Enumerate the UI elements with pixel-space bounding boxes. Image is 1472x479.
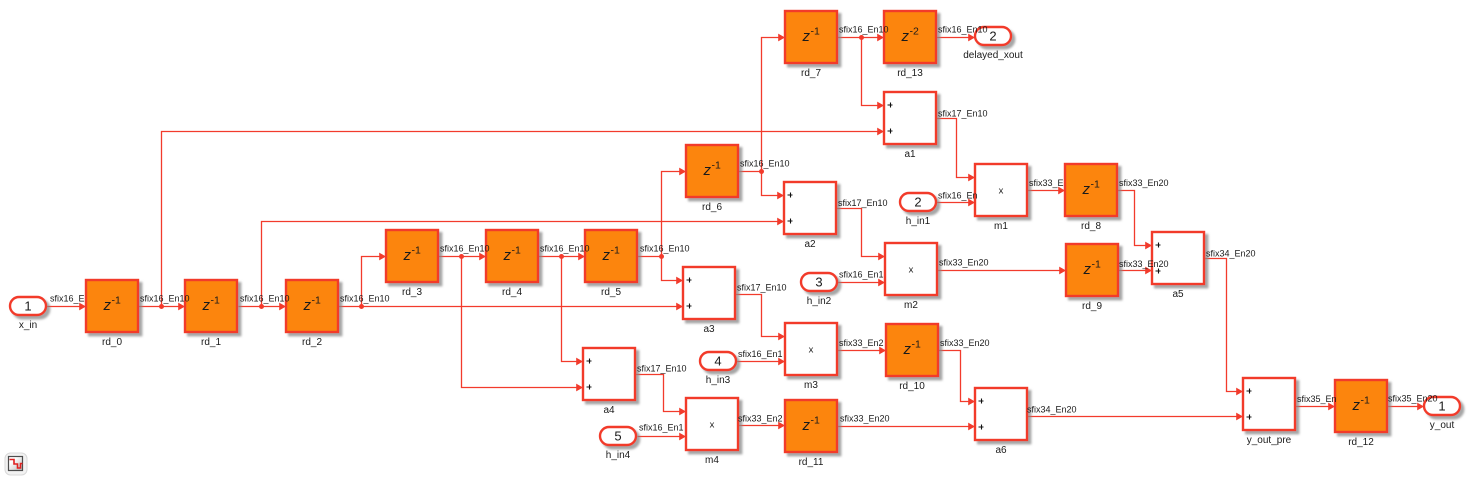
sum block a4 <box>583 348 635 416</box>
wire rd_7 to rd_13 <box>838 37 879 39</box>
port h_in1 (2) <box>900 193 936 227</box>
port delayed_xout (2) <box>963 27 1023 61</box>
svg-text:-2: -2 <box>910 26 919 38</box>
svg-text:rd_13: rd_13 <box>897 68 923 79</box>
product block m4 <box>686 398 738 466</box>
delay block rd_11 (z^-1) <box>785 400 837 468</box>
svg-text:y_out: y_out <box>1430 420 1455 431</box>
product block m3 <box>785 323 837 391</box>
wire branch rd_4 to a4 in1 <box>562 257 578 362</box>
svg-text:z: z <box>1352 397 1361 414</box>
svg-text:sfix16_En10: sfix16_En10 <box>839 25 889 35</box>
svg-text:rd_6: rd_6 <box>702 202 722 213</box>
svg-text:z: z <box>802 417 811 434</box>
port h_in3 (4) <box>700 352 736 386</box>
svg-text:-1: -1 <box>1091 179 1100 191</box>
delay block rd_3 (z^-1) <box>386 230 438 298</box>
product block m2 <box>885 243 937 311</box>
svg-text:y_out_pre: y_out_pre <box>1247 435 1292 446</box>
wire rd_5 to junction <box>638 256 662 258</box>
wire junction at 761,171 <box>759 169 764 174</box>
svg-text:sfix33_E: sfix33_E <box>1029 178 1064 188</box>
wire a3 to m3 in1 <box>736 295 780 337</box>
svg-text:x: x <box>809 345 814 356</box>
svg-text:z: z <box>903 341 912 358</box>
svg-text:sfix33_En20: sfix33_En20 <box>1119 178 1169 188</box>
svg-text:h_in1: h_in1 <box>906 216 931 227</box>
svg-text:sfix33_En2: sfix33_En2 <box>738 414 783 424</box>
wire h_in1 to m1 in2 <box>937 202 970 204</box>
svg-text:rd_11: rd_11 <box>799 457 824 468</box>
port h_in2 (3) <box>801 273 837 307</box>
svg-text:rd_1: rd_1 <box>201 337 221 348</box>
wire y_out_pre to rd_12 <box>1296 406 1330 408</box>
delay block rd_1 (z^-1) <box>185 280 237 348</box>
svg-text:z: z <box>802 28 811 45</box>
wire junction at 161,306 <box>159 304 164 309</box>
svg-text:sfix17_En10: sfix17_En10 <box>838 198 888 208</box>
svg-text:x_in: x_in <box>19 320 37 331</box>
svg-text:x: x <box>710 420 715 431</box>
delay block rd_9 (z^-1) <box>1066 244 1118 312</box>
svg-text:z: z <box>1083 261 1092 278</box>
svg-text:z: z <box>403 247 412 264</box>
svg-text:sfix16_En10: sfix16_En10 <box>240 294 290 304</box>
wire rd_6 to junction <box>739 171 762 173</box>
sum block a1 <box>884 92 936 160</box>
svg-text:sfix34_En20: sfix34_En20 <box>1206 249 1256 259</box>
svg-text:-1: -1 <box>811 26 820 38</box>
svg-text:-1: -1 <box>512 245 521 257</box>
svg-text:sfix16_En10: sfix16_En10 <box>640 244 690 254</box>
svg-text:sfix34_En20: sfix34_En20 <box>1027 405 1077 415</box>
svg-text:rd_4: rd_4 <box>502 287 522 298</box>
svg-text:-1: -1 <box>112 295 121 307</box>
wire junction down to a2 in1 <box>762 172 779 196</box>
svg-text:z: z <box>303 297 312 314</box>
svg-text:sfix16_En10: sfix16_En10 <box>340 294 390 304</box>
port x_in (1) <box>10 297 46 331</box>
svg-text:z: z <box>703 162 712 179</box>
svg-text:-1: -1 <box>412 245 421 257</box>
svg-text:rd_9: rd_9 <box>1082 301 1102 312</box>
wire m1 to rd_8 <box>1028 190 1060 192</box>
svg-text:rd_3: rd_3 <box>402 287 422 298</box>
svg-text:rd_10: rd_10 <box>899 381 925 392</box>
svg-text:sfix17_En10: sfix17_En10 <box>637 364 687 374</box>
wire rd_1 to rd_2 <box>239 306 281 308</box>
delay block rd_12 (z^-1) <box>1335 380 1387 448</box>
wire rd_9 to a5 in2 <box>1119 270 1147 272</box>
wire branch rd_1 to a2 in2 <box>262 222 779 307</box>
svg-text:3: 3 <box>815 275 822 290</box>
wire junction up to rd_7 <box>762 38 780 172</box>
sum block y_out_pre <box>1243 378 1295 446</box>
sum block a6 <box>975 388 1027 456</box>
sample time legend badge <box>5 453 27 475</box>
svg-text:-1: -1 <box>1361 395 1370 407</box>
svg-text:z: z <box>503 247 512 264</box>
svg-text:2: 2 <box>914 195 921 210</box>
svg-text:sfix16_En10: sfix16_En10 <box>140 294 190 304</box>
product block m1 <box>975 164 1027 232</box>
svg-text:z: z <box>202 297 211 314</box>
svg-text:z: z <box>103 297 112 314</box>
svg-text:sfix33_En20: sfix33_En20 <box>840 414 890 424</box>
svg-text:m2: m2 <box>904 300 918 311</box>
wire junction up to rd_3 <box>362 257 381 307</box>
wire junction at 361,306 <box>359 304 364 309</box>
svg-text:m3: m3 <box>804 380 818 391</box>
wire rd_4 to rd_5 <box>539 256 580 258</box>
sum block a2 <box>784 182 836 250</box>
svg-text:a2: a2 <box>804 239 816 250</box>
svg-text:-1: -1 <box>811 415 820 427</box>
wire m2 to rd_9 <box>938 270 1061 272</box>
svg-text:-1: -1 <box>912 339 921 351</box>
wire m3 to rd_10 <box>838 350 881 352</box>
wire junction at 861,37 <box>859 35 864 40</box>
wire rd_12 to y_out <box>1388 406 1419 408</box>
wire branch rd_0 to a1 in2 <box>162 132 879 307</box>
delay block rd_5 (z^-1) <box>585 230 637 298</box>
delay block rd_0 (z^-1) <box>86 280 138 348</box>
wire rd_3 to rd_4 <box>439 256 481 258</box>
svg-text:rd_7: rd_7 <box>801 68 821 79</box>
svg-text:-1: -1 <box>211 295 220 307</box>
svg-text:a6: a6 <box>995 445 1007 456</box>
delay block rd_6 (z^-1) <box>686 145 738 213</box>
svg-text:z: z <box>901 28 910 45</box>
svg-text:sfix16_En: sfix16_En <box>938 191 978 201</box>
svg-text:a4: a4 <box>603 405 615 416</box>
svg-text:z: z <box>602 247 611 264</box>
svg-text:sfix16_En1: sfix16_En1 <box>839 270 884 280</box>
svg-text:sfix16_E: sfix16_E <box>50 294 85 304</box>
delay block rd_2 (z^-1) <box>286 280 338 348</box>
svg-text:sfix16_En1: sfix16_En1 <box>738 349 783 359</box>
delay block rd_4 (z^-1) <box>486 230 538 298</box>
port h_in4 (5) <box>600 427 636 461</box>
wire junction down to a3 in1 <box>662 257 678 281</box>
svg-text:delayed_xout: delayed_xout <box>963 50 1023 61</box>
svg-text:sfix16_En10: sfix16_En10 <box>440 244 490 254</box>
svg-text:h_in4: h_in4 <box>606 450 631 461</box>
svg-text:-1: -1 <box>312 295 321 307</box>
svg-text:sfix16_En10: sfix16_En10 <box>540 244 590 254</box>
wire a6 to y_out_pre in2 <box>1028 416 1238 418</box>
wire junction at 461,256 <box>459 254 464 259</box>
delay block rd_8 (z^-1) <box>1065 164 1117 232</box>
delay block rd_10 (z^-1) <box>886 324 938 392</box>
svg-text:a1: a1 <box>904 149 916 160</box>
wire rd_11 to a6 in2 <box>838 426 970 428</box>
svg-text:sfix33_En20: sfix33_En20 <box>939 258 989 268</box>
wire h_in3 to m3 in2 <box>737 361 780 363</box>
sum block a5 <box>1152 232 1204 300</box>
svg-text:sfix35_En: sfix35_En <box>1297 394 1337 404</box>
wire junction at 661,256 <box>659 254 664 259</box>
wire x_in to rd_0 <box>47 306 81 308</box>
svg-text:sfix16_En10: sfix16_En10 <box>938 25 988 35</box>
svg-text:-1: -1 <box>1092 259 1101 271</box>
svg-text:4: 4 <box>714 354 721 369</box>
sum block a3 <box>683 267 735 335</box>
svg-text:a5: a5 <box>1172 289 1184 300</box>
wire rd_13 to delayed_xout <box>937 37 970 39</box>
svg-text:h_in3: h_in3 <box>706 375 731 386</box>
svg-text:sfix16_En10: sfix16_En10 <box>740 159 790 169</box>
svg-text:sfix17_En10: sfix17_En10 <box>938 109 988 119</box>
svg-text:sfix33_En2: sfix33_En2 <box>839 338 884 348</box>
svg-text:sfix35_En20: sfix35_En20 <box>1388 394 1438 404</box>
wire junction at 261,306 <box>259 304 264 309</box>
svg-text:-1: -1 <box>611 245 620 257</box>
wire rd_8 to a5 in1 <box>1118 191 1147 246</box>
wire a1 to m1 in1 <box>937 119 970 178</box>
wire rd_10 to a6 in1 <box>939 351 970 402</box>
svg-text:m4: m4 <box>705 455 719 466</box>
wire branch rd_7 to a1 in1 <box>862 38 879 106</box>
svg-text:2: 2 <box>989 29 996 44</box>
wire a4 to m4 in1 <box>636 375 681 412</box>
svg-text:sfix16_En1: sfix16_En1 <box>639 423 684 433</box>
svg-text:-1: -1 <box>712 160 721 172</box>
wire junction at 561,256 <box>559 254 564 259</box>
wire junction up to rd_6 <box>662 172 681 257</box>
svg-text:sfix33_En20: sfix33_En20 <box>940 338 990 348</box>
delay block rd_13 (z^-2) <box>884 11 936 79</box>
wire rd_0 to rd_1 <box>139 306 180 308</box>
svg-text:rd_0: rd_0 <box>102 337 122 348</box>
wire junction to a3 in2 <box>362 306 678 308</box>
svg-text:1: 1 <box>1438 399 1445 414</box>
svg-text:x: x <box>909 265 914 276</box>
svg-text:a3: a3 <box>703 324 715 335</box>
svg-text:z: z <box>1082 181 1091 198</box>
svg-text:rd_5: rd_5 <box>601 287 621 298</box>
wire a5 to y_out_pre in1 <box>1205 259 1238 392</box>
wire a2 to m2 in1 <box>837 209 880 257</box>
wire h_in4 to m4 in2 <box>638 436 681 438</box>
svg-text:m1: m1 <box>994 221 1008 232</box>
svg-text:x: x <box>999 186 1004 197</box>
svg-text:sfix17_En10: sfix17_En10 <box>737 283 787 293</box>
svg-text:1: 1 <box>24 299 31 314</box>
wire m4 to rd_11 <box>739 425 780 427</box>
port y_out (1) <box>1424 397 1460 431</box>
svg-text:sfix33_En20: sfix33_En20 <box>1119 259 1169 269</box>
svg-text:5: 5 <box>614 429 621 444</box>
wire h_in2 to m2 in2 <box>838 282 880 284</box>
svg-text:h_in2: h_in2 <box>807 296 832 307</box>
svg-text:rd_8: rd_8 <box>1081 221 1101 232</box>
delay block rd_7 (z^-1) <box>785 11 837 79</box>
wire rd_2 to junction <box>339 306 362 308</box>
svg-text:rd_2: rd_2 <box>302 337 322 348</box>
svg-text:rd_12: rd_12 <box>1348 437 1374 448</box>
wire branch rd_3 to a4 in2 <box>462 257 578 388</box>
